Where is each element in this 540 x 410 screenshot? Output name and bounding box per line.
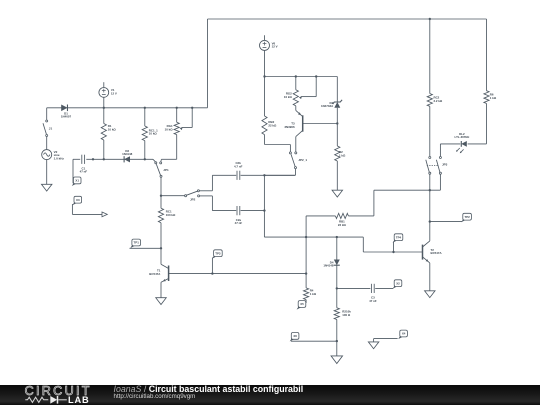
flag TP2 xyxy=(430,213,472,222)
node C3 junction xyxy=(336,287,338,289)
wire right riser to R6 xyxy=(486,19,488,91)
node TP1 junction xyxy=(160,247,162,249)
diode D3 xyxy=(122,149,133,163)
wire RG1 bottom to JP1 xyxy=(161,159,177,162)
node flag X1 xyxy=(72,177,81,186)
resistor RC1 xyxy=(158,196,176,249)
led DL2 xyxy=(440,132,486,153)
node flag X6 xyxy=(290,333,337,342)
resistor R6 xyxy=(484,91,497,144)
node T1 base end junction xyxy=(305,272,307,274)
ground T2 xyxy=(425,291,436,298)
node RB1 column junction xyxy=(305,236,307,238)
node RC1_1 bottom junction xyxy=(144,158,146,160)
probe arrow xyxy=(102,212,107,217)
switch JP3 xyxy=(426,157,448,175)
switch JP2_1 xyxy=(289,152,307,169)
node junction x93 xyxy=(92,158,94,160)
node V1 rail junction xyxy=(103,107,105,109)
wire rail corner to D2 xyxy=(336,77,338,102)
wire J1 to V2 xyxy=(46,137,48,150)
ground X4 xyxy=(368,342,379,349)
resistor R210k xyxy=(334,288,351,341)
svg-text:JP2_1: JP2_1 xyxy=(298,158,307,162)
wire JP1 down xyxy=(160,177,162,195)
wire JP3 right pole down xyxy=(439,174,441,190)
resistor R1 xyxy=(101,108,116,160)
transistor T3 2N3906 xyxy=(284,106,337,152)
resistor R2 xyxy=(335,124,346,191)
source V2 sine xyxy=(42,150,65,161)
wire corner to T2 base xyxy=(363,237,422,252)
wire RG2 wiper riser xyxy=(315,77,317,97)
wire RB1 right riser xyxy=(373,190,375,216)
node TP2 junction xyxy=(429,220,431,222)
ground R2 xyxy=(332,190,343,197)
node T3 base junction xyxy=(336,122,338,124)
node RG2 wiper junction xyxy=(315,75,317,77)
capacitor C3 xyxy=(337,284,393,303)
node RC1_1 top junction xyxy=(144,107,146,109)
node RG2 top junction xyxy=(295,75,297,77)
wire to JP2 xyxy=(161,195,185,197)
capacitor C2b xyxy=(212,161,295,180)
source V6 xyxy=(260,35,278,76)
switch J1 xyxy=(43,108,52,137)
svg-text:TP2: TP2 xyxy=(464,215,470,219)
resistor RB1 xyxy=(306,213,374,227)
source V1 xyxy=(99,82,117,108)
wire coupling row xyxy=(264,236,363,238)
wire RB2 to JP2_1 xyxy=(265,145,291,152)
svg-text:X2: X2 xyxy=(396,281,400,285)
wire JP2_1 pole down xyxy=(264,169,295,176)
node flag X2 xyxy=(393,280,402,289)
wire T1 base xyxy=(169,273,307,275)
wire DL2 to JP3 xyxy=(439,144,441,157)
wire V+ left rail xyxy=(47,107,208,109)
flag TP1 xyxy=(130,239,162,248)
wire to T2 collector xyxy=(429,222,431,241)
wire JP2 top throw xyxy=(199,175,212,191)
node JP1-RC1 junction xyxy=(160,195,162,197)
transistor T2 BC547A xyxy=(423,241,443,263)
wire RC1 to T1 xyxy=(160,248,162,264)
ground main xyxy=(331,356,343,364)
transistor T1 BC547A xyxy=(149,264,168,282)
resistor R4 xyxy=(304,288,317,303)
switch JP1 xyxy=(153,159,169,177)
wire RB1 left column xyxy=(305,216,307,288)
wire D4 to C3 junction xyxy=(336,265,338,288)
zener D2 xyxy=(321,100,342,108)
node collector bus junction xyxy=(429,189,431,191)
ground T1 xyxy=(156,298,167,305)
wire RG1 wiper riser xyxy=(191,108,193,128)
switch JP2 xyxy=(185,190,200,202)
ground V2 xyxy=(41,184,52,191)
node X6 junction xyxy=(336,340,338,342)
svg-text:RG110 kΩ: RG110 kΩ xyxy=(165,124,174,131)
node RG1 top junction xyxy=(176,107,178,109)
node RC2 top junction xyxy=(429,18,431,20)
capacitor C1 xyxy=(80,155,88,174)
svg-text:TP4: TP4 xyxy=(396,235,402,239)
node flag X4 xyxy=(374,330,408,342)
circuitlab logo xyxy=(0,384,110,405)
svg-text:X1: X1 xyxy=(75,179,79,183)
wire T2 emitter to ground xyxy=(429,263,431,291)
resistor RC1_1 xyxy=(142,108,158,160)
node RG1 wiper junction xyxy=(191,107,193,109)
node flag X3 xyxy=(72,196,102,214)
svg-text:RG210 kΩ: RG210 kΩ xyxy=(284,91,293,98)
wire C1 row xyxy=(73,158,153,160)
node flag X5 xyxy=(297,301,306,310)
svg-text:TP3: TP3 xyxy=(215,251,221,255)
wire RC2 riser xyxy=(429,19,431,94)
potentiometer RG1 xyxy=(165,108,193,160)
svg-text:J1: J1 xyxy=(49,127,53,131)
svg-text:TP1: TP1 xyxy=(134,241,140,245)
resistor RC2 xyxy=(427,94,443,157)
svg-text:JP1: JP1 xyxy=(163,168,169,172)
node R1 bottom junction xyxy=(103,158,105,160)
wire coupling column xyxy=(263,175,265,237)
wire D2 to junction xyxy=(336,108,338,124)
footer bar xyxy=(0,385,540,405)
svg-text:JP2: JP2 xyxy=(190,198,196,202)
wire V6 rail xyxy=(265,76,338,78)
svg-text:X4: X4 xyxy=(402,332,406,336)
wire C1 left drop xyxy=(72,159,74,183)
wire left riser to top rail xyxy=(207,19,209,108)
svg-text:X5: X5 xyxy=(300,302,304,306)
node C2a junction xyxy=(263,209,265,211)
svg-text:X3: X3 xyxy=(76,198,80,202)
wire JP3 left pole down xyxy=(429,174,431,190)
potentiometer RG2 xyxy=(284,77,316,106)
flag TP4 xyxy=(393,234,403,252)
wire JP2 bottom throw xyxy=(200,196,213,211)
wire V2 to ground xyxy=(46,160,48,185)
svg-text:JP3: JP3 xyxy=(442,163,448,167)
wire to main ground xyxy=(336,341,338,356)
node D4 top junction xyxy=(336,236,338,238)
wire collector bus xyxy=(374,189,441,191)
flag TP3 xyxy=(212,250,222,274)
node V6 rail junction xyxy=(263,75,265,77)
node C2b junction xyxy=(263,174,265,176)
wire T1 emitter to ground xyxy=(160,282,162,297)
wire top supply rail xyxy=(208,18,487,20)
svg-text:X6: X6 xyxy=(293,334,297,338)
node TP3 junction xyxy=(211,272,213,274)
svg-text:R210k100 Ω: R210k100 Ω xyxy=(342,310,351,317)
resistor RB2 xyxy=(262,77,277,145)
capacitor C2a xyxy=(212,206,264,225)
node TP4 junction xyxy=(392,251,394,253)
diode D1 xyxy=(61,105,72,119)
diode D4 xyxy=(323,237,339,267)
wire bus to TP2 junction xyxy=(429,190,431,221)
